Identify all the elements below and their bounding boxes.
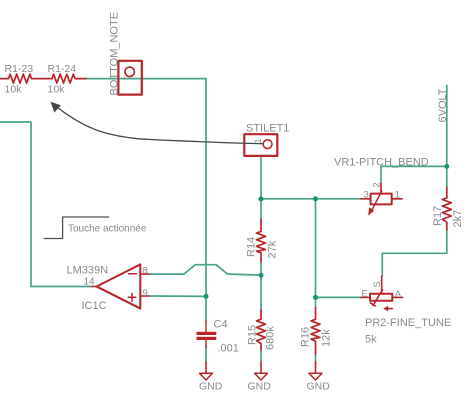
svg-text:IC1C: IC1C bbox=[82, 300, 107, 312]
svg-text:BOTTOM_NOTE: BOTTOM_NOTE bbox=[109, 12, 121, 96]
wire R16 bottom to GND bbox=[315, 354, 317, 362]
junction dot branch x=315.5 bbox=[313, 196, 318, 201]
resistor R16 bbox=[311, 308, 320, 355]
svg-text:10k: 10k bbox=[5, 84, 23, 96]
capacitor C4 plates bbox=[197, 332, 217, 335]
svg-text:1: 1 bbox=[395, 190, 400, 201]
svg-text:12k: 12k bbox=[321, 329, 333, 347]
VR1 pin 3 stub bbox=[360, 198, 370, 200]
capacitor C4 leads bbox=[205, 321, 207, 332]
svg-text:8: 8 bbox=[143, 266, 148, 277]
wire net N$top horizontal from resistors to corner bbox=[86, 78, 206, 80]
junction dot pin9/C4 bbox=[204, 294, 209, 299]
svg-text:GND: GND bbox=[248, 381, 272, 393]
svg-text:27k: 27k bbox=[266, 240, 278, 258]
svg-text:PR2-FINE_TUNE: PR2-FINE_TUNE bbox=[365, 317, 451, 329]
svg-text:680k: 680k bbox=[265, 326, 277, 350]
resistor R17 bbox=[442, 187, 451, 229]
svg-text:R1-23: R1-23 bbox=[5, 63, 34, 75]
trimmer PR2 body bbox=[370, 294, 392, 301]
wire op-amp output pin14 to left edge bbox=[0, 122, 92, 287]
wire junction to R15 top bbox=[260, 275, 262, 310]
svg-text:E: E bbox=[362, 288, 368, 299]
potentiometer VR1 body bbox=[371, 194, 392, 205]
connector STILET1 pad bbox=[244, 134, 277, 156]
junction dot STILET1/VR1-3 bbox=[259, 197, 264, 202]
svg-text:3: 3 bbox=[364, 190, 369, 201]
svg-text:GND: GND bbox=[199, 381, 223, 393]
svg-text:9: 9 bbox=[143, 288, 148, 299]
junction dot 6VOLT/R17 bbox=[444, 164, 449, 169]
svg-text:S: S bbox=[372, 281, 383, 287]
op-amp minus sign bbox=[129, 273, 137, 275]
ground GND under R16 bbox=[315, 362, 317, 373]
wire pin8 with jump over vertical bbox=[149, 265, 261, 276]
svg-text:.001: .001 bbox=[218, 343, 239, 355]
wire 6VOLT junction to VR1 pin2 bbox=[381, 166, 447, 183]
wire C4 bottom to GND bbox=[205, 346, 207, 362]
wire STILET1 down to junction and R14 bbox=[260, 156, 262, 219]
PR2 adjust slot bbox=[373, 290, 383, 306]
junction dot pin8/R14/R15 bbox=[259, 273, 264, 278]
svg-text:VR1-PITCH_BEND: VR1-PITCH_BEND bbox=[334, 157, 429, 169]
svg-text:R14: R14 bbox=[246, 237, 258, 257]
svg-text:1: 1 bbox=[253, 138, 263, 143]
op-amp IC1C triangle bbox=[97, 264, 141, 308]
svg-text:C4: C4 bbox=[214, 319, 228, 331]
wire junction to PR2 E terminal bbox=[316, 296, 361, 298]
wire horizontal y=198.8 to VR1 pin3 bbox=[261, 198, 360, 200]
connector BOTTOM_NOTE pad bbox=[118, 61, 141, 95]
wire R14 bottom to junction bbox=[260, 262, 262, 275]
resistor R14 bbox=[257, 219, 266, 262]
PR2 A stub bbox=[392, 296, 402, 298]
svg-text:R17: R17 bbox=[432, 206, 444, 226]
ground GND under C4 bbox=[205, 362, 207, 373]
svg-text:R1-24: R1-24 bbox=[48, 63, 77, 75]
wire vertical x=315.5 down to R16 bbox=[315, 199, 317, 308]
op-amp plus sign bbox=[128, 296, 136, 298]
svg-text:6VOLT: 6VOLT bbox=[437, 88, 449, 122]
svg-text:2k7: 2k7 bbox=[452, 210, 464, 228]
ground GND under R15 bbox=[260, 362, 262, 373]
wire R15 bottom to GND bbox=[260, 350, 262, 362]
svg-text:R15: R15 bbox=[246, 325, 258, 345]
junction dot R16/PR2-E bbox=[313, 295, 318, 300]
svg-text:1: 1 bbox=[117, 76, 127, 81]
VR1 wiper arrow bbox=[372, 191, 382, 211]
svg-text:Touche actionnée: Touche actionnée bbox=[68, 224, 147, 235]
svg-text:5k: 5k bbox=[365, 334, 377, 346]
wire 6VOLT vertical bbox=[446, 85, 448, 187]
resistor R15 bbox=[257, 310, 266, 350]
annotation curve arrow bbox=[57, 107, 262, 144]
annotation step waveform bbox=[44, 217, 108, 239]
svg-text:GND: GND bbox=[307, 381, 331, 393]
PR2 E stub bbox=[360, 296, 370, 298]
wire pin9 to junction bbox=[149, 295, 206, 297]
svg-text:STILET1: STILET1 bbox=[246, 123, 289, 135]
wire vertical x=206 from top corner down to C4 bbox=[205, 79, 207, 322]
VR1 pin 2 stub bbox=[380, 183, 382, 193]
VR1 pin 1 stub bbox=[392, 198, 403, 200]
svg-text:10k: 10k bbox=[48, 84, 66, 96]
PR2 small arrow bbox=[388, 308, 393, 310]
svg-text:A: A bbox=[395, 289, 402, 300]
svg-text:2: 2 bbox=[372, 182, 383, 187]
op-amp pin stubs bbox=[140, 273, 149, 275]
resistor R1-23 bbox=[0, 74, 52, 83]
PR2 S stub bbox=[381, 276, 383, 294]
resistor R1-24 bbox=[52, 74, 86, 83]
svg-text:14: 14 bbox=[84, 277, 96, 288]
wire R17 bottom to PR2 S terminal bbox=[382, 230, 447, 277]
svg-text:R16: R16 bbox=[300, 327, 312, 347]
svg-text:LM339N: LM339N bbox=[67, 265, 109, 277]
